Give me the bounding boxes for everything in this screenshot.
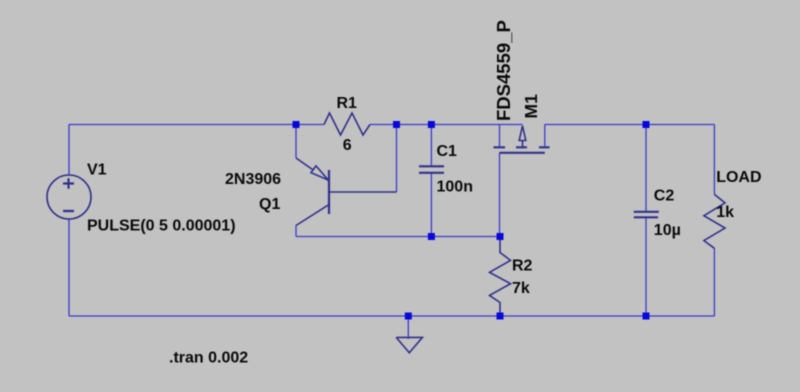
svg-text:V1: V1 xyxy=(87,162,107,179)
svg-text:6: 6 xyxy=(343,137,352,154)
value 7k xyxy=(512,280,530,297)
wire C2 lower xyxy=(645,218,647,317)
value 1k xyxy=(716,204,734,221)
directive .tran 0.002 xyxy=(169,350,248,367)
svg-text:2N3906: 2N3906 xyxy=(225,171,281,188)
label Q1 xyxy=(259,196,280,213)
svg-text:C1: C1 xyxy=(437,143,458,160)
label M1 xyxy=(521,94,541,119)
wire middle rail xyxy=(296,236,500,238)
label C2 xyxy=(654,187,675,204)
ground xyxy=(396,316,422,353)
svg-text:R2: R2 xyxy=(512,258,533,275)
svg-text:PULSE(0 5 0.00001): PULSE(0 5 0.00001) xyxy=(87,218,236,235)
svg-text:.tran 0.002: .tran 0.002 xyxy=(169,350,248,367)
junction node top C2 xyxy=(643,121,650,128)
capacitor C1 xyxy=(419,166,444,173)
wire bottom rail xyxy=(69,315,714,317)
mosfet M1 xyxy=(494,125,550,153)
svg-text:FDS4559_P: FDS4559_P xyxy=(493,20,514,121)
svg-text:1k: 1k xyxy=(716,204,734,221)
resistor R2 xyxy=(490,237,511,317)
label R2 xyxy=(512,258,533,275)
svg-text:7k: 7k xyxy=(512,280,530,297)
svg-text:M1: M1 xyxy=(521,94,541,119)
resistor R1 xyxy=(324,113,370,135)
junction node top C1 xyxy=(428,121,435,128)
junction node mid C1 xyxy=(428,233,435,240)
wire gate M1 xyxy=(499,153,501,237)
wire right lower xyxy=(713,248,715,316)
wire collector Q1 xyxy=(295,226,297,237)
value 10u xyxy=(654,222,681,239)
value PULSE(0 5 0.00001) xyxy=(87,218,236,235)
label V1 xyxy=(87,162,107,179)
label LOAD xyxy=(716,169,761,186)
svg-text:Q1: Q1 xyxy=(259,196,280,213)
value 100n xyxy=(437,179,473,196)
label C1 xyxy=(437,143,458,160)
label 2N3906 xyxy=(225,171,281,188)
wire C1 upper xyxy=(430,125,432,167)
junction node top R1 right xyxy=(393,121,400,128)
wire base Q1 vertical xyxy=(396,125,398,193)
wire C2 upper xyxy=(645,125,647,212)
wire top rail mid xyxy=(370,124,523,126)
wire left upper xyxy=(68,125,70,176)
capacitor C2 xyxy=(634,212,659,218)
svg-text:100n: 100n xyxy=(437,179,473,196)
svg-text:C2: C2 xyxy=(654,187,675,204)
svg-text:10µ: 10µ xyxy=(654,222,681,239)
voltage source V1 xyxy=(47,175,91,219)
wire C1 lower xyxy=(430,173,432,237)
transistor Q1 xyxy=(296,158,397,226)
label R1 xyxy=(337,95,358,112)
svg-text:LOAD: LOAD xyxy=(716,169,761,186)
svg-text:R1: R1 xyxy=(337,95,358,112)
wire right upper xyxy=(713,125,715,195)
wire left lower xyxy=(68,219,70,316)
resistor LOAD xyxy=(704,194,725,248)
value 6 xyxy=(343,137,352,154)
wire top rail left xyxy=(69,124,324,126)
junction node bottom R2 xyxy=(497,313,504,320)
junction node mid R2 xyxy=(497,233,504,240)
junction node bottom ground xyxy=(405,313,412,320)
label FDS4559_P xyxy=(493,20,514,121)
wire top rail right xyxy=(545,124,715,126)
junction node bottom C2 xyxy=(643,313,650,320)
junction node top R1 left xyxy=(293,121,300,128)
wire emitter Q1 xyxy=(295,125,297,159)
